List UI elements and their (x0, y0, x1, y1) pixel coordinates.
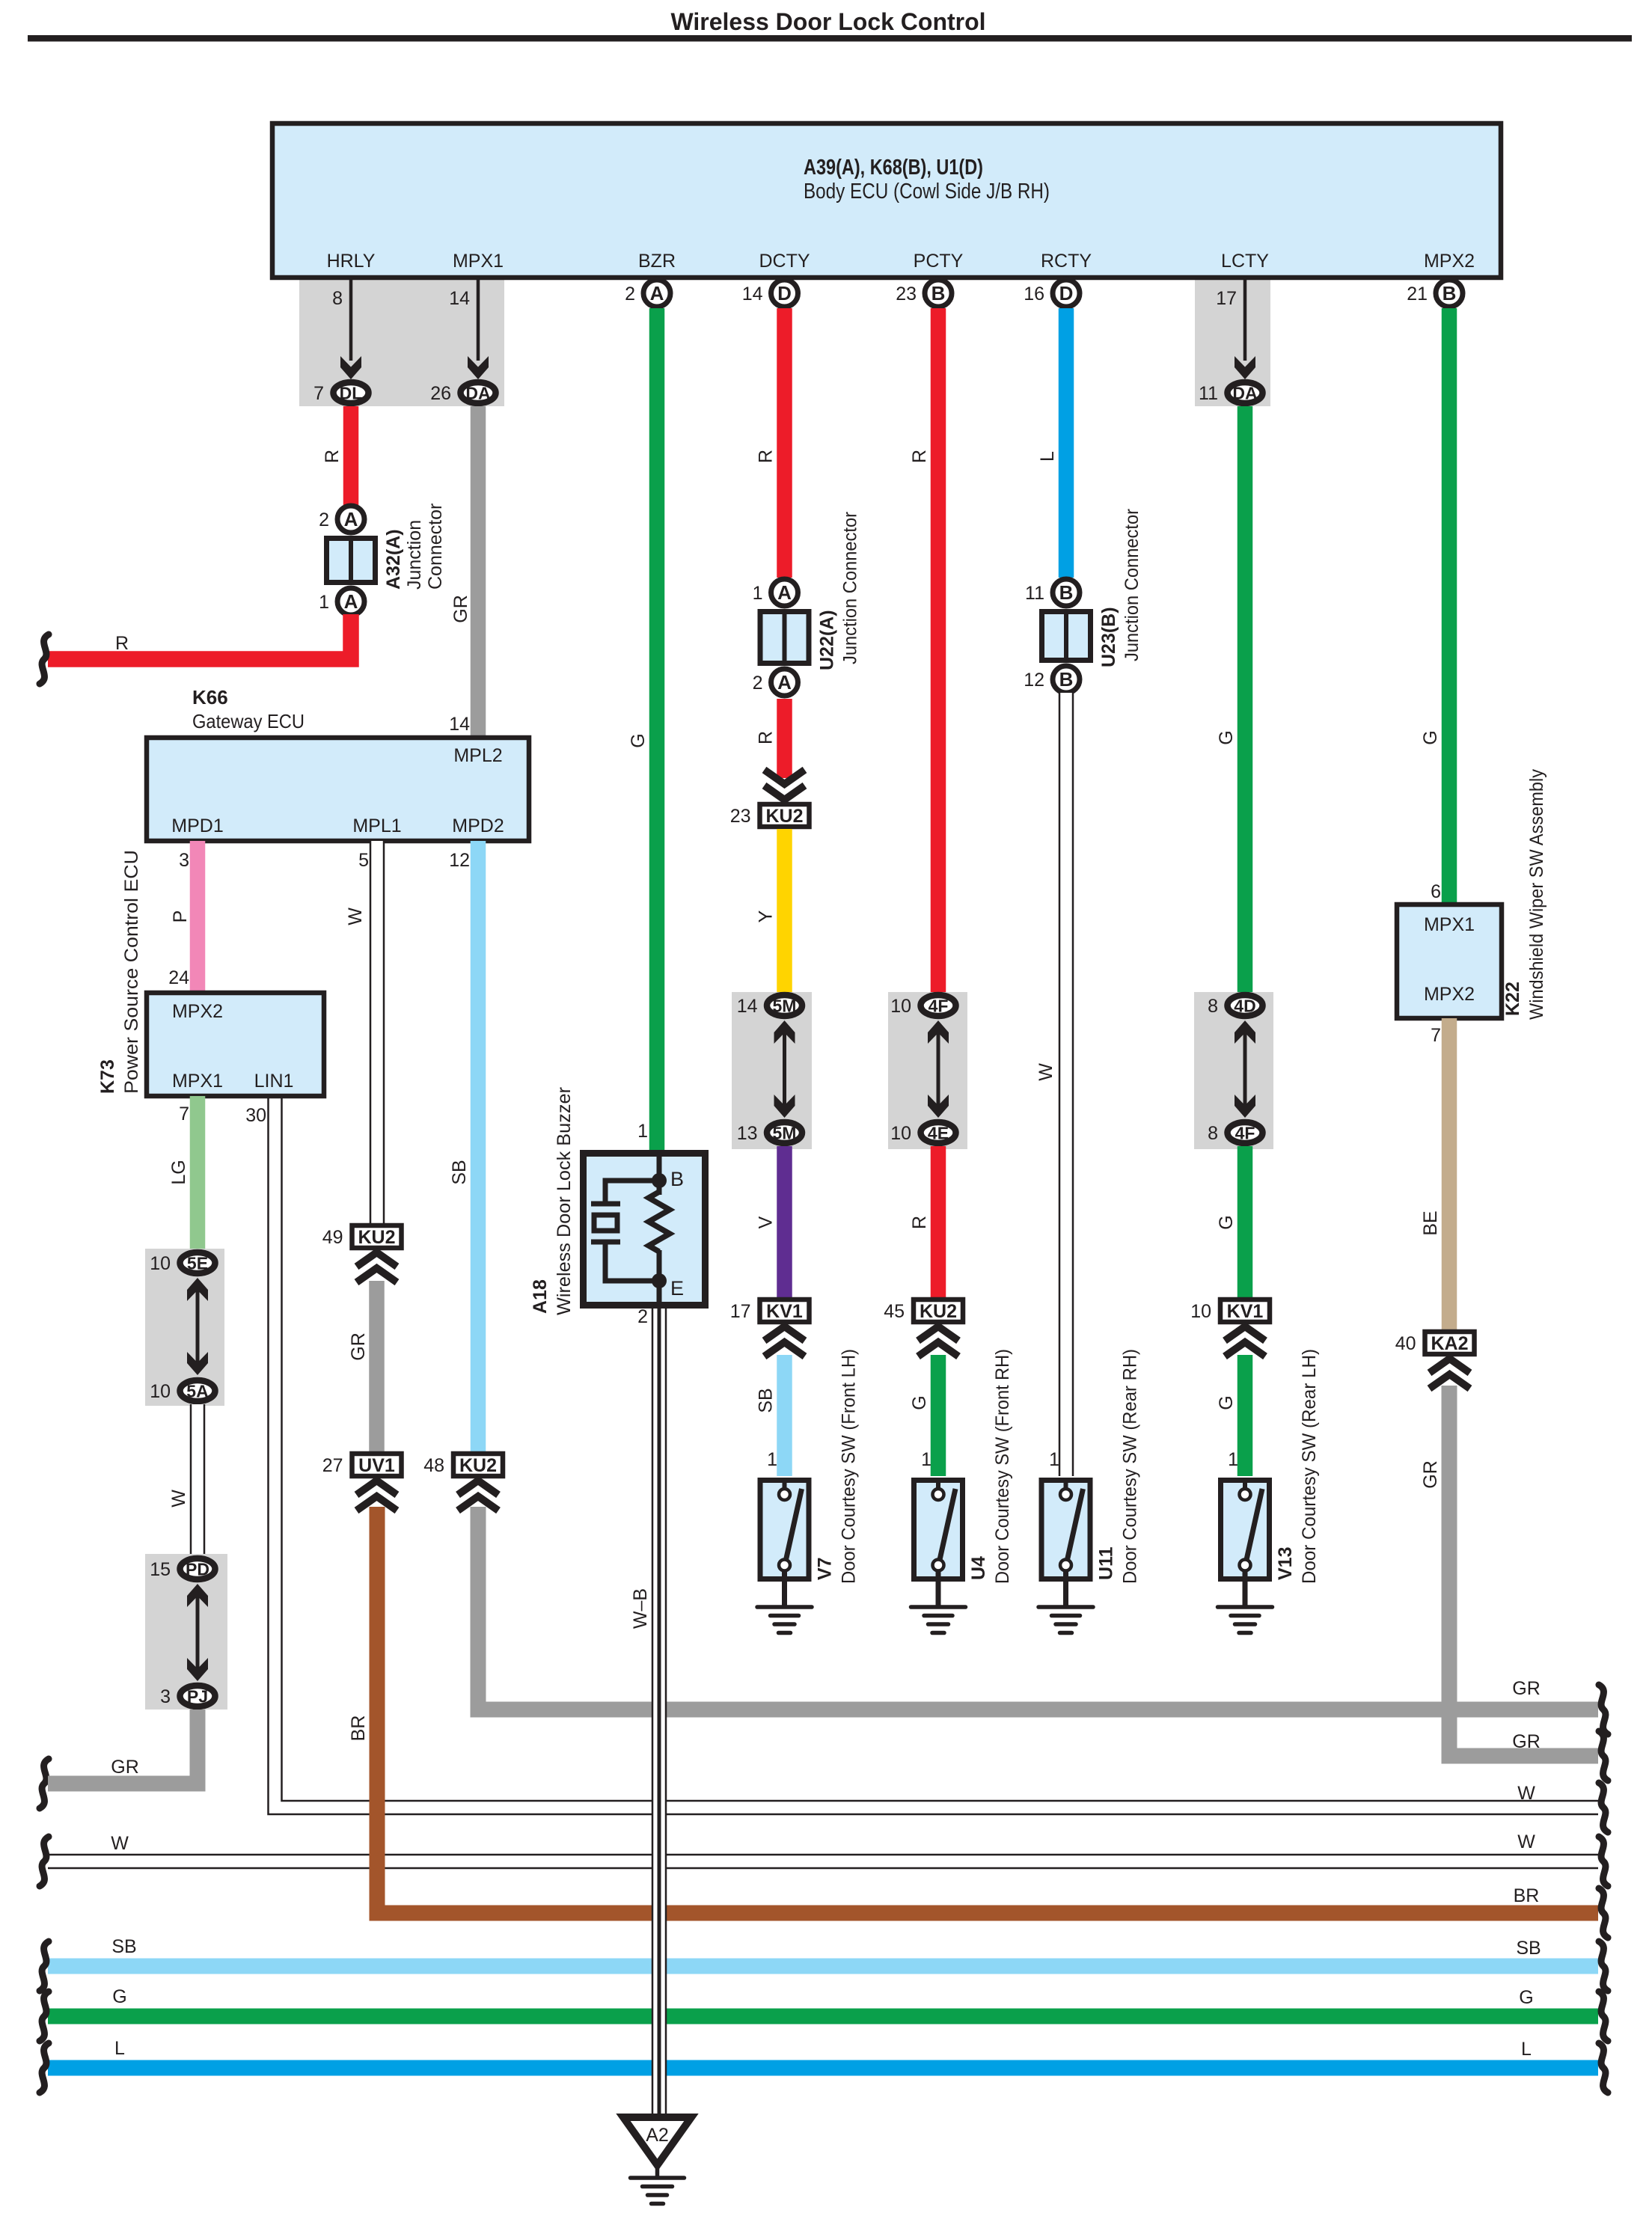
svg-text:V13: V13 (1275, 1547, 1296, 1580)
arrow into DA (468, 356, 489, 379)
svg-text:GR: GR (1420, 1460, 1441, 1489)
svg-text:5E: 5E (187, 1254, 208, 1273)
wire G from MPX2 to K22 (1442, 308, 1457, 906)
brace W left (40, 1837, 49, 1886)
svg-text:LIN1: LIN1 (254, 1071, 294, 1092)
svg-text:MPD1: MPD1 (171, 815, 223, 836)
pin 2 BZR connector A (643, 280, 670, 307)
svg-text:K73: K73 (97, 1059, 118, 1094)
svg-text:5M: 5M (773, 997, 797, 1016)
brace BR right (1599, 1888, 1608, 1938)
connector KU2 pin 45 (914, 1300, 963, 1322)
svg-text:B: B (931, 282, 946, 304)
svg-text:DA: DA (465, 384, 490, 403)
svg-text:27: 27 (322, 1455, 343, 1476)
chevron under UV1-27 (357, 1481, 397, 1495)
svg-text:A: A (344, 590, 358, 613)
svg-text:MPX2: MPX2 (172, 1001, 223, 1022)
connector DA pin 11 (1228, 382, 1263, 403)
svg-text:8: 8 (1208, 1123, 1218, 1144)
svg-text:W: W (1035, 1063, 1056, 1081)
wire R from 4E to KU2-45 (931, 1146, 946, 1299)
svg-text:G: G (1519, 1987, 1533, 2008)
svg-text:10: 10 (1190, 1301, 1211, 1322)
svg-text:KU2: KU2 (920, 1301, 957, 1322)
svg-text:R: R (909, 1216, 930, 1229)
svg-text:A: A (650, 282, 664, 304)
connector PJ pin 3 (180, 1686, 215, 1707)
ground under U11 (1063, 1582, 1068, 1607)
pin 14 MPX1 wire (477, 278, 480, 361)
chevron under KA2-40 (1430, 1359, 1470, 1373)
svg-text:V: V (756, 1216, 777, 1228)
svg-text:A32(A): A32(A) (383, 529, 404, 590)
svg-text:W–B: W–B (630, 1588, 651, 1629)
svg-text:1: 1 (767, 1449, 777, 1470)
svg-text:14: 14 (449, 288, 470, 309)
wire LG from MPX1 to 5E (190, 1096, 206, 1250)
svg-text:E: E (670, 1277, 684, 1300)
switch U11 Door Courtesy SW Rear RH (1041, 1481, 1090, 1579)
pin 23 PCTY connector B (925, 280, 952, 307)
svg-text:SB: SB (111, 1936, 136, 1957)
wire BR from UV1-27 to right edge (377, 1507, 1598, 1913)
wire GR from KU2-48 to right edge (478, 1507, 1598, 1710)
svg-text:7: 7 (179, 1104, 189, 1124)
connector 4E pin 10 (921, 1122, 956, 1143)
title rule (28, 35, 1632, 42)
svg-text:3: 3 (179, 850, 189, 871)
svg-text:BR: BR (348, 1716, 369, 1742)
svg-text:5M: 5M (773, 1124, 797, 1143)
svg-text:23: 23 (730, 806, 751, 827)
connector 5M pin 13 (767, 1122, 802, 1143)
svg-text:A18: A18 (530, 1279, 551, 1314)
wire W-B from buzzer to ground A2 (652, 1309, 667, 2116)
svg-text:KU2: KU2 (765, 806, 803, 827)
wire R from A32 to left edge (48, 614, 351, 659)
connector 5M pin 14 (767, 995, 802, 1016)
svg-text:A: A (777, 581, 792, 604)
svg-text:1: 1 (921, 1449, 931, 1470)
wire W from MPL1 to KU2-49 (370, 841, 385, 1225)
svg-text:D: D (777, 282, 792, 304)
connector shading block PD/PJ (145, 1554, 227, 1710)
svg-text:14: 14 (449, 714, 470, 735)
ground under U4 (936, 1582, 941, 1607)
svg-text:G: G (628, 733, 649, 747)
svg-text:G: G (112, 1986, 126, 2007)
junction connector A32(A) (327, 539, 376, 583)
svg-text:6: 6 (1431, 881, 1441, 902)
wire G from KV1-10 to V13 (1238, 1355, 1253, 1476)
svg-text:30: 30 (245, 1105, 266, 1126)
svg-text:MPX2: MPX2 (1424, 251, 1475, 272)
svg-text:26: 26 (430, 383, 451, 404)
svg-text:2: 2 (625, 284, 635, 304)
connector 5E pin 10 (180, 1252, 215, 1273)
connector shading block 5M/5M (732, 992, 812, 1149)
chevron under KU2-45 (918, 1326, 958, 1341)
svg-text:GR: GR (450, 595, 471, 623)
wire W from U23 to U11 (1059, 693, 1074, 1476)
svg-text:R: R (756, 450, 777, 463)
svg-text:16: 16 (1024, 284, 1044, 304)
svg-text:RCTY: RCTY (1041, 251, 1092, 272)
connector KV1 pin 17 (760, 1300, 810, 1322)
wire G horizontal bus (48, 2009, 1598, 2024)
svg-text:A: A (777, 671, 792, 694)
connector shading block HRLY/MPX1 (299, 279, 504, 406)
chevron under KV1-10 (1225, 1326, 1265, 1341)
chevron under KV1-17 (765, 1326, 805, 1341)
wire BE from K22 to KA2-40 (1442, 1018, 1457, 1331)
svg-text:Door Courtesy SW (Front LH): Door Courtesy SW (Front LH) (839, 1349, 860, 1584)
brace L right (1599, 2043, 1608, 2093)
svg-text:R: R (322, 450, 343, 463)
svg-text:MPL1: MPL1 (352, 815, 401, 836)
arrows between 4D and 4F (1243, 1031, 1247, 1107)
svg-text:KU2: KU2 (459, 1455, 497, 1476)
svg-text:MPX2: MPX2 (1424, 984, 1475, 1005)
svg-text:HRLY: HRLY (327, 251, 376, 272)
svg-text:PD: PD (186, 1560, 209, 1579)
svg-text:G: G (1216, 1395, 1237, 1410)
svg-text:21: 21 (1407, 284, 1428, 304)
arrows between 5E and 5A (196, 1288, 200, 1365)
svg-text:P: P (170, 910, 191, 923)
svg-text:A: A (344, 508, 358, 530)
svg-text:DL: DL (340, 384, 363, 403)
svg-text:3: 3 (160, 1686, 171, 1707)
svg-text:W: W (1517, 1783, 1535, 1804)
svg-text:G: G (1420, 730, 1441, 744)
svg-text:BR: BR (1514, 1885, 1540, 1906)
svg-text:Connector: Connector (425, 504, 446, 590)
brace SB left (40, 1941, 49, 1991)
connector shading block 4D/4F (1194, 992, 1273, 1149)
brace G left (40, 1992, 49, 2041)
brace W right (1599, 1837, 1608, 1886)
svg-text:MPX1: MPX1 (453, 251, 504, 272)
svg-text:10: 10 (890, 1123, 911, 1144)
svg-text:SB: SB (756, 1388, 777, 1413)
buzzer internal circuit (657, 1150, 662, 1195)
svg-text:PCTY: PCTY (914, 251, 964, 272)
svg-text:B: B (1059, 668, 1074, 691)
connector KV1 pin 10 (1220, 1300, 1270, 1322)
svg-text:2: 2 (319, 509, 329, 530)
svg-text:4F: 4F (929, 997, 949, 1016)
wire W from LIN1 to right edge (275, 1096, 1599, 1808)
brace GR right (1599, 1685, 1608, 1734)
svg-text:Wireless Door Lock Buzzer: Wireless Door Lock Buzzer (554, 1087, 575, 1315)
connector KU2 pin 48 (453, 1454, 503, 1476)
svg-text:1: 1 (1228, 1449, 1238, 1470)
node E (652, 1273, 667, 1288)
svg-text:Wireless Door Lock Control: Wireless Door Lock Control (670, 8, 985, 35)
wire GR from PJ down to left edge (48, 1710, 198, 1784)
svg-text:MPD2: MPD2 (452, 815, 504, 836)
svg-text:DA: DA (1232, 384, 1257, 403)
svg-text:45: 45 (884, 1301, 905, 1322)
svg-text:14: 14 (737, 996, 758, 1017)
wire R from DL to A32 (343, 406, 359, 506)
svg-text:U4: U4 (968, 1556, 989, 1580)
svg-text:K22: K22 (1502, 982, 1523, 1016)
wire V from 5M to KV1-17 (777, 1146, 792, 1299)
svg-text:PJ: PJ (187, 1687, 208, 1707)
brace GR left (40, 1759, 49, 1808)
svg-text:U22(A): U22(A) (817, 610, 838, 670)
brace L left (40, 2043, 49, 2093)
wire G from 4F to KV1-10 (1238, 1146, 1253, 1299)
wire SB from KV1-17 to V7 (777, 1355, 792, 1476)
svg-text:SB: SB (1516, 1938, 1541, 1959)
ground under V7 (782, 1582, 787, 1607)
arrows between PD and PJ (196, 1594, 200, 1671)
node B (652, 1173, 667, 1188)
chevron into KU2-23 (765, 786, 805, 800)
svg-text:12: 12 (449, 850, 470, 871)
ECU A39/K68/U1 Body ECU (Cowl Side J/B RH) (272, 123, 1501, 278)
svg-text:G: G (1216, 1215, 1237, 1229)
svg-text:KA2: KA2 (1431, 1333, 1468, 1354)
svg-text:Junction Connector: Junction Connector (840, 512, 861, 664)
svg-text:U23(B): U23(B) (1098, 607, 1119, 667)
svg-text:SB: SB (449, 1160, 470, 1184)
arrows between 4F and 4E (937, 1031, 940, 1107)
svg-text:11: 11 (1025, 583, 1044, 604)
ground under V13 (1243, 1582, 1248, 1607)
svg-text:49: 49 (322, 1227, 343, 1248)
svg-text:LG: LG (168, 1160, 189, 1184)
svg-text:G: G (1216, 730, 1237, 744)
connector shading block 5E/5A (145, 1249, 224, 1406)
svg-text:4F: 4F (1235, 1124, 1255, 1143)
connector 4D pin 8 (1228, 995, 1263, 1016)
svg-text:GR: GR (348, 1332, 369, 1361)
resistor in buzzer (649, 1192, 670, 1252)
svg-text:KV1: KV1 (1227, 1301, 1264, 1322)
svg-text:MPL2: MPL2 (453, 745, 502, 766)
pin 21 MPX2 connector B (1436, 280, 1463, 307)
svg-text:8: 8 (332, 288, 343, 309)
junction connector U23(B) (1042, 612, 1091, 661)
wire G from BZR to buzzer (649, 308, 665, 1150)
svg-text:K66: K66 (192, 686, 228, 708)
svg-text:B: B (670, 1168, 684, 1190)
connector KU2 pin 49 (352, 1225, 402, 1248)
svg-text:W: W (1517, 1831, 1535, 1852)
switch U4 Door Courtesy SW Front RH (914, 1481, 963, 1579)
connector shading block 4F/4E (888, 992, 967, 1149)
svg-text:24: 24 (168, 967, 189, 988)
arrow into DA 11 (1235, 356, 1255, 379)
svg-text:R: R (909, 450, 930, 463)
svg-text:4E: 4E (928, 1124, 949, 1143)
switch V13 Door Courtesy SW Rear LH (1221, 1481, 1270, 1579)
svg-text:12: 12 (1024, 670, 1044, 691)
svg-text:W: W (168, 1490, 189, 1508)
svg-text:23: 23 (896, 284, 917, 304)
svg-text:5A: 5A (186, 1382, 208, 1401)
svg-text:B: B (1443, 282, 1457, 304)
svg-text:A2: A2 (646, 2125, 669, 2146)
connector DL pin 7 (334, 382, 369, 403)
svg-text:A39(A), K68(B), U1(D): A39(A), K68(B), U1(D) (804, 156, 983, 180)
svg-text:2: 2 (637, 1306, 648, 1327)
wire W from 5A to PD (190, 1404, 206, 1556)
wire L horizontal bus (48, 2060, 1598, 2076)
wire SB from MPD2 to KU2-48 (471, 841, 486, 1453)
svg-text:G: G (909, 1395, 930, 1410)
svg-text:L: L (1521, 2039, 1532, 2060)
svg-text:10: 10 (150, 1381, 171, 1402)
svg-text:Door Courtesy SW (Front RH): Door Courtesy SW (Front RH) (992, 1349, 1013, 1584)
svg-text:4D: 4D (1234, 997, 1255, 1016)
arrow into DL (340, 356, 361, 379)
svg-text:1: 1 (1049, 1449, 1059, 1470)
wire R from U22 to KU2-23 (777, 699, 792, 778)
svg-text:Body ECU (Cowl Side J/B RH): Body ECU (Cowl Side J/B RH) (804, 180, 1050, 203)
connector KU2 pin 23 (760, 804, 810, 827)
svg-text:15: 15 (150, 1559, 171, 1580)
svg-text:UV1: UV1 (358, 1455, 395, 1476)
chevron under KU2-48 (458, 1481, 498, 1495)
svg-text:Junction Connector: Junction Connector (1122, 509, 1142, 661)
piezo element of buzzer (605, 1181, 659, 1203)
pin 17 LCTY wire (1243, 278, 1247, 361)
svg-text:Door Courtesy SW (Rear RH): Door Courtesy SW (Rear RH) (1120, 1349, 1141, 1584)
svg-text:Y: Y (756, 910, 777, 922)
svg-text:Junction: Junction (404, 520, 425, 590)
svg-text:KU2: KU2 (358, 1227, 395, 1248)
svg-text:Windshield Wiper SW Assembly: Windshield Wiper SW Assembly (1526, 769, 1547, 1020)
chevron under KU2-49 (357, 1252, 397, 1267)
svg-text:5: 5 (358, 850, 369, 871)
svg-text:B: B (1059, 581, 1074, 604)
svg-text:MPX1: MPX1 (1424, 914, 1475, 935)
svg-text:10: 10 (150, 1253, 171, 1274)
svg-text:W: W (111, 1833, 129, 1854)
svg-text:R: R (115, 633, 129, 654)
svg-text:Door Courtesy SW (Rear LH): Door Courtesy SW (Rear LH) (1299, 1349, 1320, 1584)
junction connector U22(A) (760, 612, 809, 664)
svg-text:GR: GR (1512, 1678, 1541, 1699)
wire GR from DA to Gateway ECU (471, 406, 486, 739)
connector 4F pin 8 (1228, 1122, 1263, 1143)
svg-text:40: 40 (1395, 1333, 1416, 1354)
wire P from MPD1 to K73 (190, 841, 206, 994)
svg-text:7: 7 (1431, 1025, 1441, 1046)
svg-text:11: 11 (1199, 383, 1218, 404)
connector 4F pin 10 (921, 995, 956, 1016)
svg-text:BE: BE (1420, 1211, 1441, 1235)
connector UV1 pin 27 (352, 1454, 402, 1476)
svg-text:Gateway ECU: Gateway ECU (192, 710, 305, 732)
brace G right (1599, 1992, 1608, 2041)
wire SB horizontal bus (48, 1959, 1598, 1974)
wire Y from KU2-23 to 5M (777, 829, 792, 993)
svg-text:1: 1 (753, 583, 763, 604)
wire GR from KU2-49 to UV1-27 (369, 1281, 385, 1453)
pin 8 HRLY wire (349, 278, 353, 361)
wire L from RCTY to U23 (1059, 308, 1074, 578)
buzzer A18 Wireless Door Lock Buzzer (584, 1154, 706, 1306)
brace SB right (1599, 1941, 1608, 1991)
wire G from KU2-45 to U4 (931, 1355, 946, 1476)
connector shading block LCTY (1195, 279, 1270, 406)
svg-text:7: 7 (313, 383, 324, 404)
svg-text:MPX1: MPX1 (172, 1071, 223, 1092)
wire R from PCTY to 4F (931, 308, 946, 993)
svg-text:R: R (756, 731, 777, 744)
pin 16 RCTY connector D (1053, 280, 1080, 307)
svg-text:D: D (1059, 282, 1074, 304)
svg-text:8: 8 (1208, 996, 1218, 1017)
brace R left (40, 634, 49, 684)
pin 14 DCTY connector D (771, 280, 798, 307)
svg-text:GR: GR (111, 1757, 139, 1778)
brace GR KA2 right (1599, 1731, 1608, 1781)
connector PD pin 15 (180, 1558, 215, 1579)
svg-text:GR: GR (1512, 1731, 1541, 1752)
svg-text:DCTY: DCTY (759, 251, 810, 272)
svg-text:10: 10 (890, 996, 911, 1017)
svg-text:Power Source Control ECU: Power Source Control ECU (121, 850, 142, 1094)
svg-text:L: L (1037, 451, 1058, 462)
svg-text:48: 48 (423, 1455, 444, 1476)
switch V7 Door Courtesy SW Front LH (760, 1481, 809, 1579)
ground A2 (623, 2117, 691, 2165)
brace W LIN1 right (1599, 1783, 1608, 1832)
svg-text:LCTY: LCTY (1221, 251, 1269, 272)
connector KA2 pin 40 (1425, 1332, 1475, 1354)
arrows between 5M and 5M (783, 1031, 786, 1107)
svg-text:17: 17 (1216, 288, 1237, 309)
svg-text:L: L (114, 2038, 125, 2059)
svg-text:U11: U11 (1096, 1546, 1117, 1580)
svg-text:KV1: KV1 (766, 1301, 803, 1322)
connector 5A pin 10 (180, 1380, 215, 1401)
svg-text:V7: V7 (815, 1557, 836, 1580)
connector DA pin 26 (461, 382, 496, 403)
svg-text:13: 13 (737, 1123, 758, 1144)
svg-text:BZR: BZR (638, 251, 676, 272)
svg-text:W: W (345, 908, 366, 925)
wire GR from KA2 to right edge (1449, 1386, 1598, 1756)
wire W horizontal bus (48, 1854, 1598, 1870)
svg-text:2: 2 (753, 673, 763, 694)
wire G from DA-11 to 4D (1238, 406, 1253, 993)
svg-text:1: 1 (637, 1121, 648, 1142)
svg-text:14: 14 (742, 284, 763, 304)
svg-text:17: 17 (730, 1301, 751, 1322)
wire R from DCTY to U22 (777, 308, 792, 578)
svg-text:1: 1 (319, 592, 329, 613)
